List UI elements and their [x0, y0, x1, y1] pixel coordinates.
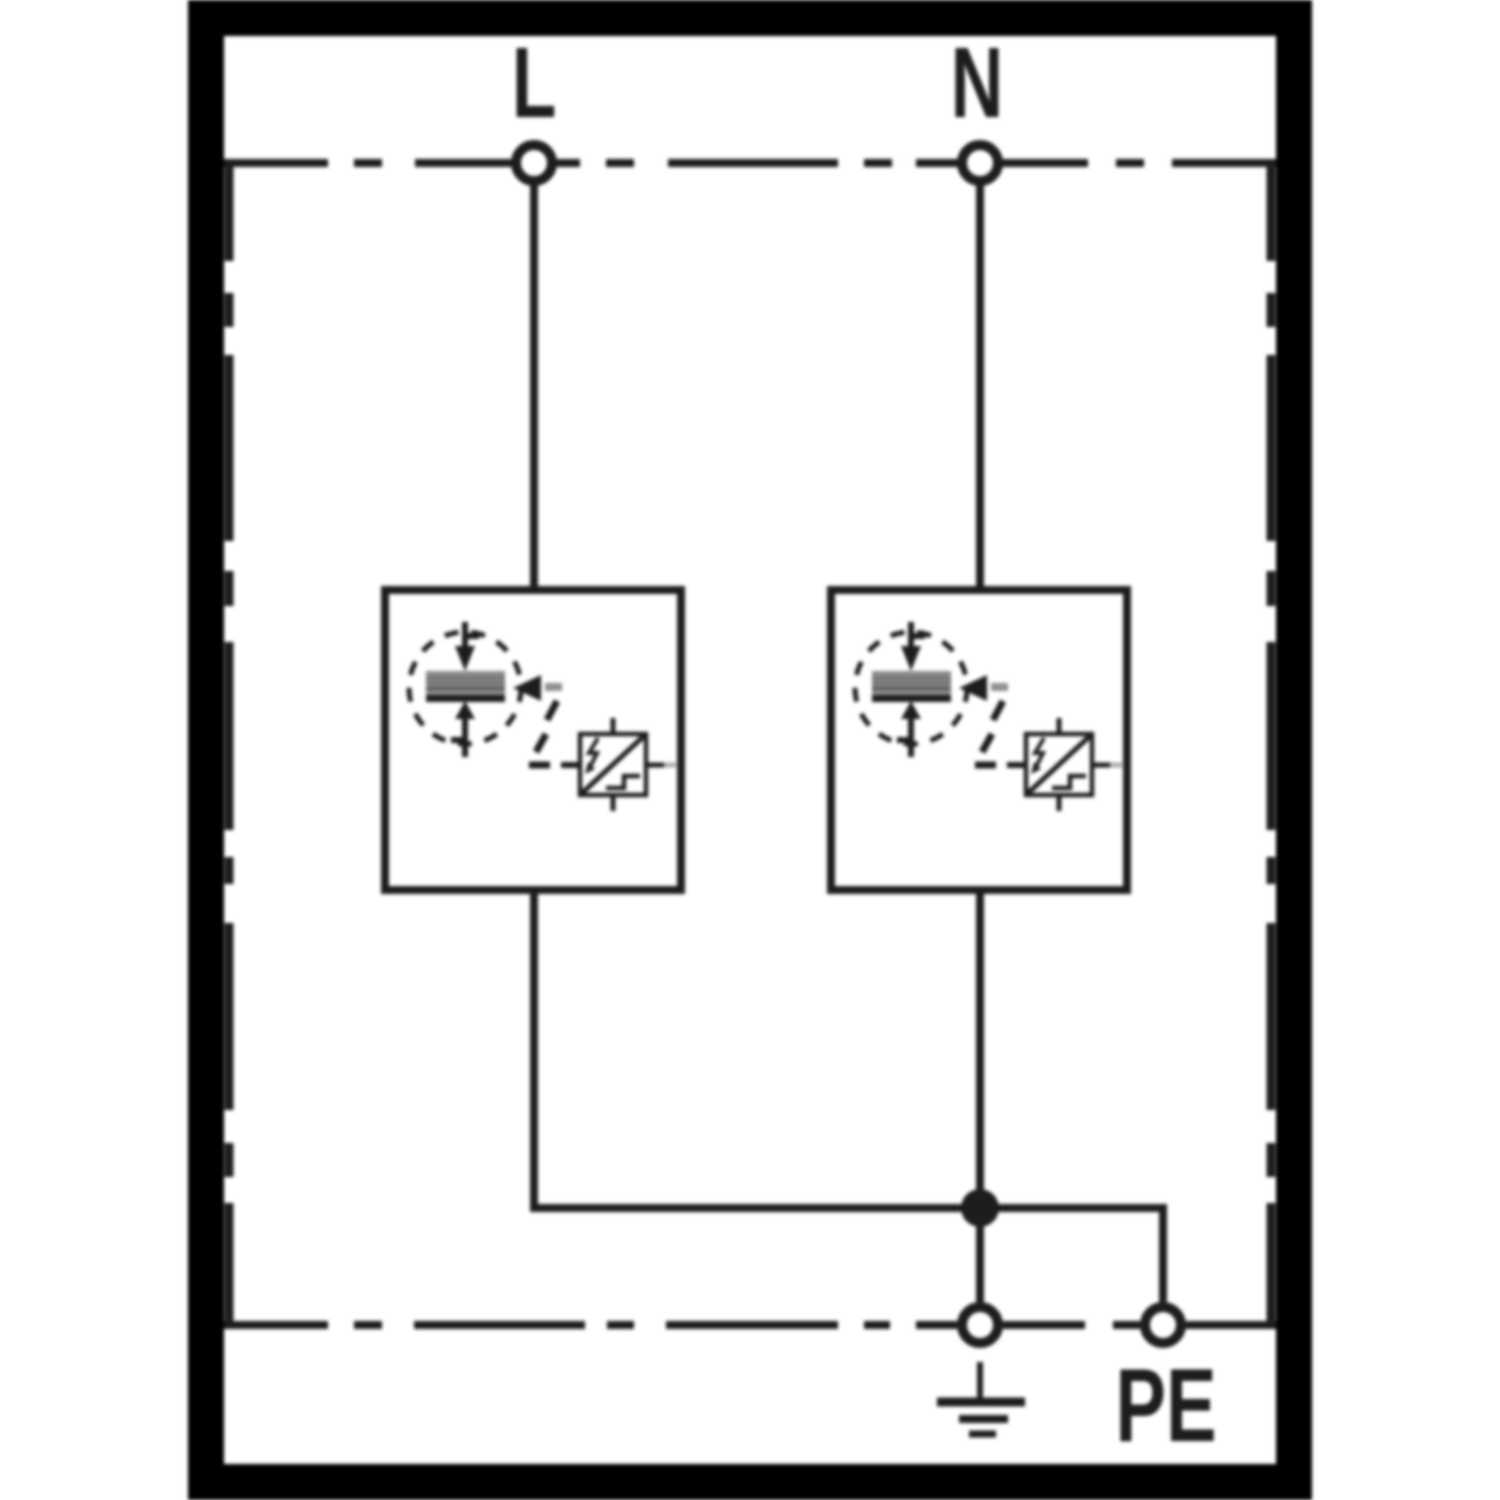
wire left bus dot1	[225, 293, 234, 327]
terminal L	[516, 145, 552, 181]
wire top bus dot3	[864, 159, 892, 167]
trigger box diagonal	[581, 735, 645, 794]
wire bottom bus L3	[666, 1321, 838, 1329]
svg-text:PE: PE	[1115, 1348, 1216, 1463]
step curve	[606, 776, 640, 788]
wire left bus dot4	[225, 1143, 234, 1177]
SPD module U2 (N branch)	[831, 590, 1127, 890]
wire L terminal to box1	[530, 163, 538, 586]
node junction dot	[961, 1189, 999, 1227]
wire right bus dot3	[1267, 857, 1276, 884]
wire left bus seg5	[225, 1203, 234, 1329]
terminal PE	[1145, 1307, 1181, 1343]
spark gap electrode stack	[426, 671, 505, 695]
wire bottom bus ground to PE	[1003, 1321, 1085, 1329]
terminal ground	[962, 1307, 998, 1343]
wire junction to PE terminal	[980, 1208, 1163, 1302]
wire top bus L2 through L terminal	[415, 159, 580, 167]
SPD module U1 (L branch)	[385, 590, 681, 890]
border frame	[206, 18, 1294, 1482]
wire right bus dot4	[1267, 1143, 1276, 1177]
wire top bus dot4	[1116, 159, 1144, 167]
wire box1 bottom to junction	[534, 894, 980, 1208]
wire N terminal to box2	[976, 163, 984, 586]
wire left bus seg1	[225, 159, 234, 261]
wire left bus seg2	[225, 355, 234, 541]
wire top bus L1	[224, 159, 328, 167]
lightning bolt	[589, 738, 598, 769]
wire left bus dot2	[225, 571, 234, 606]
wire right bus seg2	[1267, 355, 1276, 541]
wire bottom bus L2	[414, 1321, 585, 1329]
wire top bus L5	[1172, 159, 1276, 167]
wire bottom bus dot1	[354, 1321, 382, 1329]
bottom arrow of spark gap	[455, 701, 475, 719]
wire box2 bottom to ground terminal	[976, 894, 984, 1302]
wire top bus dot2	[606, 159, 634, 167]
svg-text:L: L	[512, 27, 557, 139]
trigger arrowhead	[513, 675, 541, 701]
wire top bus L4 through N terminal	[916, 159, 1088, 167]
wire left bus dot3	[225, 857, 234, 884]
wire right bus seg3	[1267, 642, 1276, 830]
wire bottom bus PE to frame	[1186, 1321, 1276, 1329]
wire left bus seg3	[225, 642, 234, 830]
wire top bus L3	[668, 159, 838, 167]
wire left bus seg4	[225, 923, 234, 1110]
wire right bus seg4	[1267, 923, 1276, 1110]
wire bottom bus into ground terminal	[916, 1321, 957, 1329]
wire right bus seg1	[1267, 159, 1276, 261]
wire bottom bus dot3	[864, 1321, 890, 1329]
ground symbol	[937, 1362, 1025, 1434]
wire right bus dot2	[1267, 571, 1276, 606]
wire bottom bus dot2	[607, 1321, 634, 1329]
box outline	[385, 590, 681, 890]
top arrow of spark gap	[462, 622, 468, 648]
wire bottom bus L1	[224, 1321, 328, 1329]
svg-text:N: N	[951, 27, 1004, 139]
trigger dashed link	[545, 683, 562, 691]
wire top bus dot1	[354, 159, 382, 167]
terminal N	[962, 145, 998, 181]
trigger device box	[580, 734, 646, 795]
wire right bus seg5	[1267, 1203, 1276, 1329]
wire right bus dot1	[1267, 293, 1276, 327]
spark gap dashed circle	[409, 632, 521, 744]
wire bottom bus dot4	[1113, 1321, 1140, 1329]
